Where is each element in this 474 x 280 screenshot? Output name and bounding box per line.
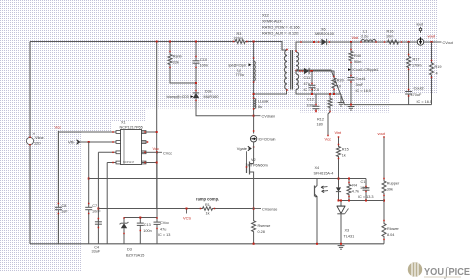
svg-text:3mF: 3mF [356,83,364,87]
svg-text:Vint: Vint [352,35,360,40]
svg-text:10: 10 [337,84,341,88]
svg-text:C10: C10 [200,58,207,62]
svg-text:X6: X6 [321,28,326,32]
svg-text:Rupper: Rupper [387,182,400,186]
svg-text:VCS: VCS [183,216,191,221]
svg-text:R19: R19 [435,65,442,69]
svg-text:R16: R16 [387,30,394,34]
svg-text:ramp comp.: ramp comp. [196,197,219,202]
svg-text:Cout1: Cout1 [356,77,366,81]
svg-text:33uF: 33uF [92,250,101,254]
svg-text:D3x: D3x [205,90,212,94]
svg-text:IC = 13.3: IC = 13.3 [358,195,374,199]
svg-text:Vline: Vline [35,135,44,140]
svg-text:220m: 220m [234,37,244,41]
svg-text:IC = 16.5: IC = 16.5 [417,100,433,104]
svg-text:CVcc: CVcc [163,151,172,155]
svg-text:R40: R40 [354,54,361,58]
svg-text:Rsnb: Rsnb [173,55,182,59]
svg-text:4: 4 [436,72,438,76]
svg-text:120: 120 [34,141,41,146]
svg-text:MTP6N60m: MTP6N60m [248,164,268,168]
svg-text:4.7k: 4.7k [352,190,359,194]
svg-text:C12: C12 [307,98,314,102]
svg-text:R12: R12 [317,118,324,122]
svg-text:180: 180 [317,123,323,127]
svg-text:100n: 100n [360,186,368,190]
svg-text:MUR160: MUR160 [204,95,219,99]
svg-text:BZX79A15: BZX79A15 [126,254,144,258]
svg-text:8.04: 8.04 [387,233,394,237]
svg-text:10nF: 10nF [92,210,101,214]
svg-text:C11: C11 [304,76,311,80]
svg-text:vout: vout [428,34,436,39]
svg-text:C13: C13 [144,223,151,227]
svg-text:IC = 16.5: IC = 16.5 [356,89,372,93]
svg-text:10m: 10m [386,34,393,38]
svg-text:1uF: 1uF [61,210,68,214]
svg-text:SFH615A-4: SFH615A-4 [314,172,334,176]
svg-text:ID=CIDrain: ID=CIDrain [259,137,276,141]
svg-text:Vcc: Vcc [55,125,62,130]
svg-text:D3: D3 [127,248,132,252]
svg-text:vout: vout [378,131,386,136]
svg-text:1k: 1k [206,211,210,215]
svg-text:Rlower: Rlower [387,227,400,231]
svg-text:Vcc: Vcc [153,146,160,151]
svg-text:MBR20100: MBR20100 [315,32,334,36]
svg-text:Vcc: Vcc [325,136,332,141]
svg-text:NCP1217: NCP1217 [123,160,135,164]
svg-text:YOU: YOU [424,266,444,278]
svg-text:Rsense: Rsense [258,224,271,228]
svg-text:X3: X3 [345,229,350,233]
svg-text:IC = 12.5: IC = 12.5 [304,88,320,92]
svg-text:ICout1=CRipple1: ICout1=CRipple1 [353,68,379,72]
svg-text:470uF: 470uF [411,93,422,97]
svg-text:L1: L1 [363,30,367,34]
svg-text:770u: 770u [236,73,244,77]
svg-text:CVsense: CVsense [262,208,277,212]
svg-text:CVdrain: CVdrain [262,115,276,119]
svg-text:R20: R20 [337,78,344,82]
svg-text:RATIO_POW = -0.166: RATIO_POW = -0.166 [262,26,300,30]
svg-text:Vfb: Vfb [68,140,74,145]
svg-text:Vgate: Vgate [237,146,247,151]
svg-text:47u: 47u [304,82,310,86]
svg-text:90m: 90m [354,60,361,64]
svg-text:R1: R1 [205,203,210,207]
svg-text:LLeak: LLeak [258,99,268,103]
svg-text:Iout: Iout [417,22,424,26]
svg-text:XFMR-AUX: XFMR-AUX [262,20,282,24]
svg-text:X4: X4 [315,166,320,170]
svg-text:0.28: 0.28 [258,230,265,234]
svg-text:X1: X1 [121,121,126,125]
svg-text:PICE: PICE [449,266,471,278]
svg-text:IC = 13: IC = 13 [158,233,170,237]
svg-text:Iclamp@=CD3: Iclamp@=CD3 [167,95,189,99]
svg-text:R17: R17 [413,58,420,62]
svg-text:8u: 8u [258,105,262,109]
svg-text:C8: C8 [62,204,67,208]
svg-text:NCP1217P65: NCP1217P65 [120,125,143,129]
svg-text:C7: C7 [92,204,97,208]
svg-text:C1: C1 [361,180,366,184]
svg-text:CVout: CVout [443,41,454,45]
svg-text:TL431: TL431 [344,235,355,239]
svg-text:R15: R15 [342,148,349,152]
svg-text:R4: R4 [352,184,357,188]
svg-text:39k: 39k [387,188,393,192]
svg-text:Ipri@=CIpri: Ipri@=CIpri [229,63,247,67]
svg-text:RATIO_AUX = -0.120: RATIO_AUX = -0.120 [262,32,298,36]
svg-text:Vint: Vint [335,130,343,135]
svg-text:2.2u: 2.2u [361,34,368,38]
svg-text:R3: R3 [237,32,242,36]
svg-text:100n: 100n [143,229,151,233]
svg-text:Cout2: Cout2 [414,87,424,91]
svg-text:22k: 22k [173,61,179,65]
svg-text:170m: 170m [412,64,422,68]
svg-text:V2: V2 [251,158,256,162]
svg-text:1k: 1k [342,154,346,158]
svg-text:100n: 100n [307,104,315,108]
svg-text:Lp: Lp [237,68,241,72]
svg-text:CVcc: CVcc [160,221,169,225]
svg-text:X12: X12 [262,14,269,18]
svg-text:100n: 100n [200,64,208,68]
svg-text:47u: 47u [160,227,166,231]
